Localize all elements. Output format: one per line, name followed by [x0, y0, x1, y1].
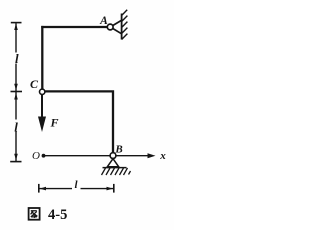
wall line at A: [121, 14, 123, 40]
dimension line bottom: horizontal with label gap: [40, 188, 114, 190]
svg-text:O: O: [32, 150, 40, 162]
wall hatching at A: [122, 10, 128, 40]
link at A (triangle to wall): [113, 20, 122, 33]
support B triangle: [107, 159, 118, 167]
pin A (roller circle): [107, 24, 113, 30]
dimension left top cap: [11, 22, 22, 24]
x-axis arrowhead: [148, 153, 156, 158]
force F arrowhead: [38, 117, 46, 133]
svg-text:4-5: 4-5: [48, 207, 67, 223]
caption glyph 图 (drawn): [29, 208, 40, 220]
dimension bottom left cap: [38, 184, 40, 193]
wire: left vertical member: [41, 26, 43, 89]
dimension left middle tick: [11, 91, 23, 93]
svg-text:l: l: [14, 120, 18, 135]
dimension line left: vertical with label gaps: [15, 23, 17, 161]
svg-text:l: l: [74, 179, 78, 191]
wire: middle horizontal member + right vertical member: [45, 91, 113, 152]
svg-text:C: C: [30, 77, 39, 91]
dimension bottom right cap: [113, 184, 115, 193]
svg-text:B: B: [114, 144, 122, 156]
force F arrow shaft: [41, 95, 43, 118]
origin O dot: [42, 154, 46, 158]
dimension left bottom cap: [10, 161, 21, 163]
pin B (support circle): [110, 153, 116, 159]
svg-text:A: A: [99, 15, 108, 27]
dimension left arrowheads: [14, 24, 18, 31]
ground line at B: [103, 167, 127, 169]
x-axis line: [44, 155, 151, 157]
svg-text:l: l: [15, 51, 19, 66]
ground hatching at B: [102, 168, 131, 175]
svg-text:F: F: [49, 116, 58, 130]
wire: top horizontal member: [41, 26, 107, 28]
svg-text:x: x: [159, 150, 166, 162]
pin C (hinge circle): [40, 89, 45, 94]
dimension bottom arrowheads: [40, 187, 47, 191]
